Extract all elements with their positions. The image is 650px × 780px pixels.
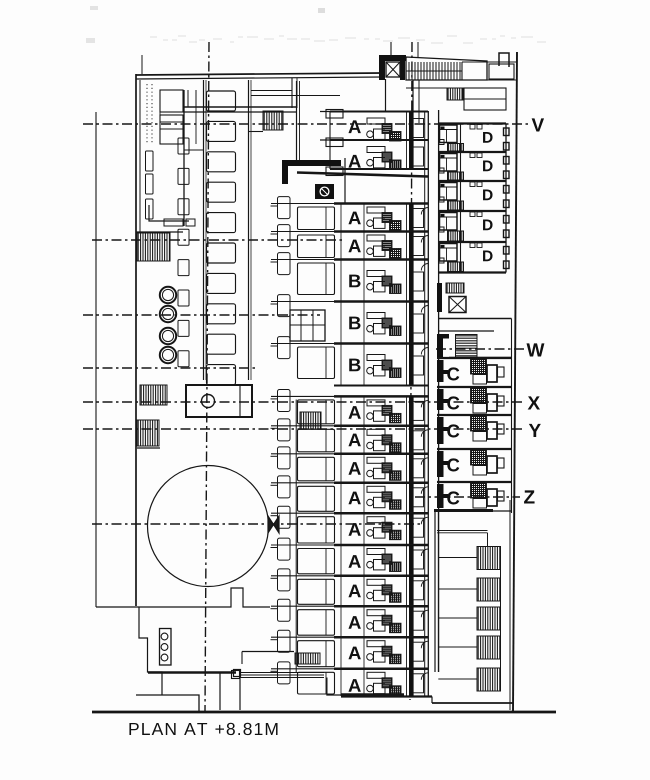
grid vline center: [410, 42, 412, 700]
grid line V: [83, 123, 528, 125]
unit A12: [334, 605, 428, 608]
corridor stair upper-mid: [263, 111, 283, 130]
D bottom wall: [438, 271, 506, 273]
label Y: [529, 424, 541, 437]
title text: [129, 723, 277, 735]
unit B1: [334, 258, 428, 261]
grid line Y: [83, 428, 524, 430]
left outer wall: [135, 74, 137, 606]
unit C5: [437, 481, 512, 483]
grid line Z: [415, 496, 520, 498]
unit C2: [437, 386, 512, 388]
upper D room: [464, 88, 506, 110]
unit B3: [334, 342, 428, 345]
W stair hatch: [456, 335, 478, 358]
bottom door posts: [219, 673, 221, 710]
stair block L2: [140, 385, 167, 405]
column circle 3: [160, 328, 176, 344]
unit B3 bottom: [334, 385, 428, 387]
upper corridor walls: [412, 80, 414, 111]
pump room: [186, 385, 252, 417]
unit A10: [334, 544, 428, 547]
unit A2: [330, 139, 428, 141]
label X: [528, 396, 540, 409]
column circle 2: [160, 306, 176, 322]
mid-right corridor: [438, 318, 512, 320]
dotted inner wall: [146, 84, 148, 144]
right boundary wall: [513, 52, 517, 712]
unit C3: [437, 414, 512, 416]
bottom glazing band: [240, 672, 324, 674]
br balcony 1: [477, 547, 501, 570]
unit A8: [334, 482, 428, 485]
unit A4: [334, 230, 428, 233]
corridor wall right: [438, 110, 440, 672]
pump circle: [202, 395, 215, 408]
tank circle: [148, 466, 269, 587]
bottom unit outline: [327, 678, 342, 696]
corridor band: [183, 106, 297, 108]
grid line X: [83, 401, 524, 403]
ladder cells: [207, 91, 236, 111]
narrow shaft A: [146, 151, 154, 171]
ladder right rail: [248, 80, 250, 380]
left property line: [95, 112, 97, 607]
W stair bottom: [449, 357, 511, 359]
unit A11: [334, 575, 428, 578]
scan noise band: [150, 36, 157, 38]
unit A1: [330, 111, 428, 113]
br corridor: [434, 512, 436, 672]
bottom-left outline: [136, 695, 199, 712]
mid elevator black: [315, 184, 334, 199]
br balcony 2: [477, 578, 501, 601]
unit A5: [334, 395, 428, 398]
br right link: [500, 547, 502, 692]
valve bowtie: [268, 516, 279, 533]
unit D4: [438, 210, 506, 212]
grid line h240: [92, 239, 344, 241]
br balcony 5: [477, 668, 501, 691]
room L2: [160, 115, 183, 144]
label Z: [524, 490, 534, 503]
label V: [532, 118, 544, 131]
unit A13: [334, 636, 428, 639]
unit A6: [334, 425, 428, 428]
top stair band: [406, 57, 487, 80]
W stair black bracket: [437, 334, 443, 358]
mid stair hatch x300: [300, 412, 321, 429]
unit C1: [437, 357, 512, 359]
triple outlet box: [160, 629, 172, 666]
top-right rooms: [462, 61, 517, 63]
grid vline left: [205, 42, 209, 712]
right stair hatch upper: [446, 283, 464, 293]
grid line h315: [83, 314, 320, 316]
unit A7: [334, 453, 428, 456]
unit C4: [437, 448, 512, 450]
column circle 1: [160, 287, 176, 303]
br connector: [437, 530, 488, 532]
units left wall: [295, 400, 297, 673]
bottom row closing: [341, 693, 404, 696]
top elevator core black: [379, 55, 406, 61]
unit D2: [438, 151, 506, 153]
unit A14: [334, 668, 428, 671]
br balcony 4: [477, 636, 501, 659]
left step outline: [139, 607, 162, 695]
top wall: [136, 73, 383, 75]
unit A2 bottom wall: [330, 168, 428, 170]
stair block L1: [137, 233, 170, 261]
upper stair hatch: [447, 88, 463, 100]
grid line h368: [83, 367, 256, 369]
left block extra walls: [195, 107, 197, 144]
B special grid box: [290, 310, 325, 341]
grid line W: [436, 348, 524, 350]
ladder left rail: [203, 80, 205, 380]
corridor wall inner: [424, 111, 426, 696]
below-circle wall: [96, 588, 270, 607]
unit D3: [438, 180, 506, 182]
right elevator box: [449, 297, 466, 313]
upper mid walls: [251, 90, 292, 92]
unit A3: [334, 202, 428, 205]
left L wall: [149, 205, 189, 221]
corridor wall left: [427, 111, 429, 696]
top risers: [390, 42, 392, 57]
mid wall pair: [296, 81, 298, 161]
narrow shaft C: [146, 199, 154, 219]
small room a: [164, 219, 183, 226]
ground line: [92, 711, 556, 714]
narrow shaft B: [146, 174, 154, 194]
label W: [527, 343, 545, 356]
unit B2: [334, 300, 428, 303]
small room b: [186, 219, 195, 226]
grid line h524: [92, 523, 420, 525]
br balcony 3: [477, 607, 501, 630]
column circle 4: [160, 347, 176, 363]
divider walls: [183, 90, 185, 226]
bottom stair hatch: [295, 653, 320, 664]
unit D1: [438, 122, 506, 124]
ladder side shafts: [178, 138, 189, 154]
unit D5: [438, 241, 506, 243]
bottom thick wall: [148, 671, 236, 674]
mid black wall: [282, 160, 341, 166]
right elevator black wall: [437, 283, 442, 312]
top hook: [499, 53, 509, 67]
unit A9: [334, 512, 428, 515]
bottom corridor lines: [242, 651, 294, 653]
br link lines: [438, 557, 477, 559]
C bottom wall: [434, 509, 493, 512]
room L1: [160, 90, 183, 112]
stair block L3: [137, 420, 159, 446]
